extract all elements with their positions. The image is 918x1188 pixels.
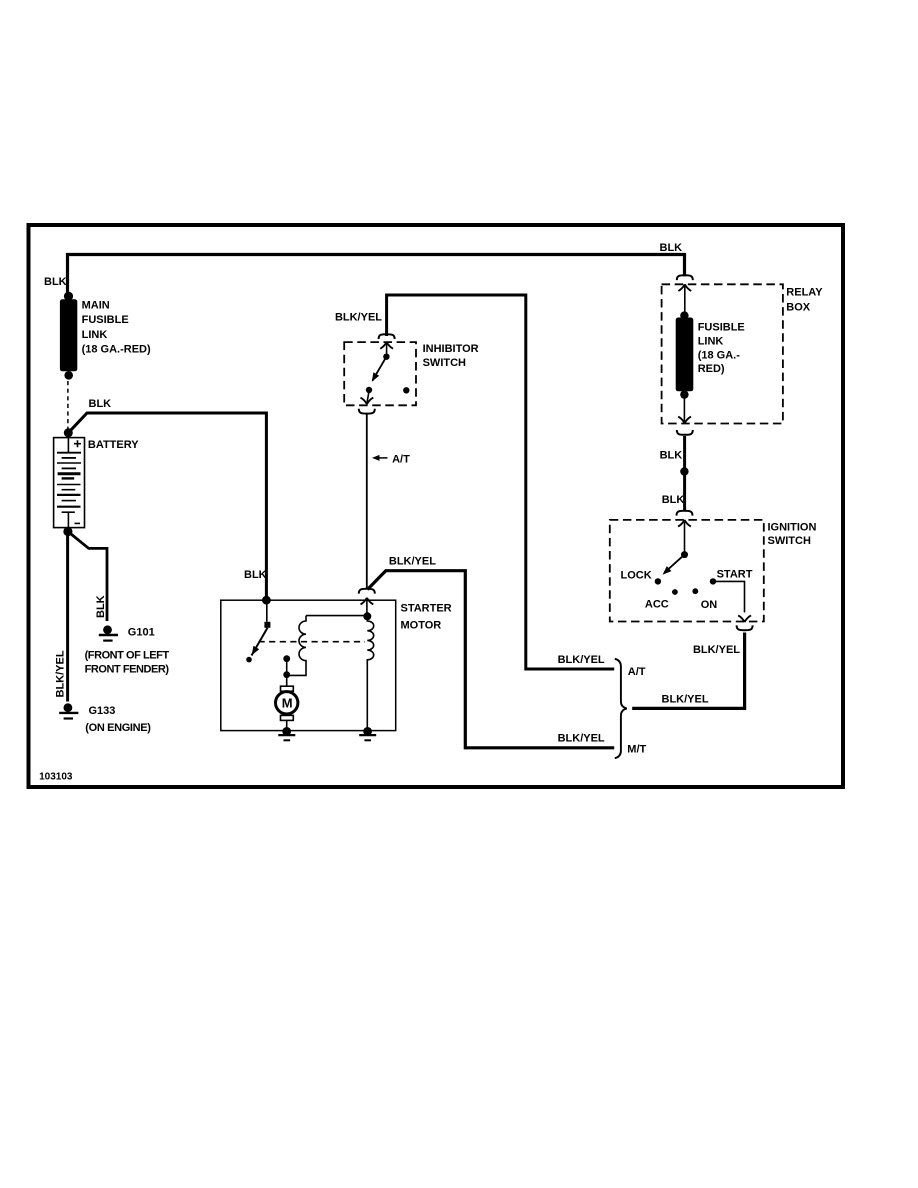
svg-text:START: START (717, 569, 753, 581)
svg-text:BLK/YEL: BLK/YEL (558, 733, 605, 745)
wire dashed from fusible link to battery (67, 381, 69, 429)
svg-text:LINK: LINK (82, 329, 108, 341)
svg-text:MAIN: MAIN (82, 300, 110, 312)
node ignition START contact (710, 578, 716, 584)
label (FRONT OF LEFT FRONT FENDER) (85, 650, 170, 676)
svg-text:BLK/YEL: BLK/YEL (335, 312, 382, 324)
ground G133 (59, 703, 78, 718)
node inhibitor output contact (366, 387, 372, 393)
svg-text:G101: G101 (128, 626, 155, 638)
wire BLK/YEL from battery - to G133 (66, 532, 69, 702)
svg-text:RELAY: RELAY (786, 287, 823, 299)
svg-text:BLK/YEL: BLK/YEL (693, 644, 740, 656)
svg-text:BLK: BLK (662, 494, 685, 506)
value label FUSIBLE LINK (18 GA.-RED) relay (698, 322, 745, 376)
svg-text:BLK: BLK (89, 398, 112, 410)
wire BLK/YEL ignition START to brace junction (632, 633, 744, 709)
ground G101 (99, 625, 118, 640)
svg-text:MOTOR: MOTOR (401, 620, 442, 632)
inductor hold-in coil (367, 616, 373, 730)
svg-text:(18 GA.-RED): (18 GA.-RED) (82, 344, 151, 356)
svg-text:STARTER: STARTER (401, 603, 452, 615)
svg-text:103103: 103103 (39, 772, 73, 783)
wire BLK relay box to ignition switch (683, 436, 686, 512)
wire BLK from battery - to G101 (68, 532, 107, 622)
svg-text:ON: ON (701, 599, 718, 611)
connector ignition switch input (677, 511, 693, 527)
wire BLK/YEL M/T branch from starter S to brace (368, 571, 615, 748)
svg-text:(18 GA.-: (18 GA.- (698, 349, 741, 361)
node battery negative terminal (63, 527, 72, 536)
node inhibitor unused contact (403, 387, 409, 393)
svg-text:BLK: BLK (44, 276, 67, 288)
wire BLK main feed from battery top across to relay box (68, 255, 685, 295)
motor M starter armature (276, 675, 298, 731)
node splice in BLK wire (680, 467, 688, 475)
svg-text:FUSIBLE: FUSIBLE (82, 314, 129, 326)
connector ignition switch START output (737, 615, 753, 630)
node ignition ON contact (692, 588, 698, 594)
svg-text:BLK/YEL: BLK/YEL (558, 654, 605, 666)
wire START contact to connector (713, 581, 745, 612)
svg-text:G133: G133 (89, 705, 116, 717)
svg-text:(FRONT OF LEFT: (FRONT OF LEFT (85, 650, 170, 662)
switch inhibitor contact arm (372, 343, 390, 382)
label STARTER MOTOR (401, 603, 452, 632)
svg-text:SWITCH: SWITCH (768, 535, 811, 547)
svg-text:LINK: LINK (698, 335, 724, 347)
value label MAIN FUSIBLE LINK (18 GA.-RED) (82, 300, 151, 356)
svg-text:SWITCH: SWITCH (423, 357, 466, 369)
inhibitor switch box (dashed) (344, 342, 416, 405)
border frame of diagram (29, 225, 844, 787)
svg-text:FRONT FENDER): FRONT FENDER) (85, 663, 170, 675)
svg-text:BLK: BLK (95, 595, 107, 618)
wire BLK from inhibitor to starter S (366, 415, 368, 590)
switch starter solenoid contact arm (246, 600, 270, 662)
switch ignition rotor arm (663, 521, 689, 575)
svg-text:A/T: A/T (392, 454, 410, 466)
ignition switch box (dashed) (610, 520, 764, 622)
connector relay box output (677, 395, 693, 435)
svg-text:RED): RED) (698, 363, 725, 375)
node solenoid S terminal junction (363, 612, 371, 620)
svg-text:BLK/YEL: BLK/YEL (55, 650, 67, 697)
fusible link F1 MAIN FUSIBLE LINK (60, 292, 77, 380)
svg-text:INHIBITOR: INHIBITOR (423, 343, 479, 355)
svg-text:BOX: BOX (786, 302, 811, 314)
node starter B terminal junction (262, 596, 271, 605)
svg-text:BLK: BLK (660, 242, 683, 254)
wire BLK from battery + to starter motor B terminal (68, 413, 266, 599)
label IGNITION SWITCH (768, 522, 817, 548)
battery symbol (54, 438, 85, 528)
svg-text:IGNITION: IGNITION (768, 522, 817, 534)
connector inhibitor switch output (359, 393, 375, 414)
label INHIBITOR SWITCH (423, 343, 479, 369)
svg-text:A/T: A/T (628, 666, 646, 678)
svg-text:BLK/YEL: BLK/YEL (389, 556, 436, 568)
node ignition ACC contact (672, 589, 678, 595)
inductor pull-in coil (287, 616, 367, 676)
node battery positive terminal (64, 428, 73, 437)
wire dashed mechanical link solenoid (259, 641, 366, 643)
label RELAY BOX (786, 287, 823, 314)
svg-text:BATTERY: BATTERY (88, 439, 139, 451)
svg-text:BLK: BLK (660, 450, 683, 462)
brace splitting A/T and M/T branches (615, 659, 627, 758)
ground starter motor armature (278, 727, 295, 740)
label A/T with arrow (372, 454, 410, 466)
svg-text:LOCK: LOCK (621, 570, 652, 582)
ground starter solenoid coil (359, 727, 376, 740)
fusible link F2 in relay box (676, 285, 694, 399)
relay box (dashed) (662, 284, 783, 423)
wire BLK/YEL from inhibitor switch down and A/T branch (387, 295, 615, 669)
svg-text:FUSIBLE: FUSIBLE (698, 322, 745, 334)
svg-text:BLK/YEL: BLK/YEL (662, 694, 709, 706)
svg-text:BLK: BLK (244, 569, 267, 581)
starter motor box (221, 600, 396, 730)
connector starter S terminal (female cup and male arrow) (359, 589, 375, 617)
node starter main contacts (283, 655, 290, 678)
node ignition LOCK contact (655, 578, 661, 584)
svg-text:M/T: M/T (627, 744, 646, 756)
connector inhibitor switch input (379, 334, 395, 349)
connector relay box input (677, 275, 693, 291)
svg-text:(ON ENGINE): (ON ENGINE) (85, 722, 151, 734)
svg-text:ACC: ACC (645, 599, 669, 611)
svg-text:M: M (282, 696, 293, 711)
